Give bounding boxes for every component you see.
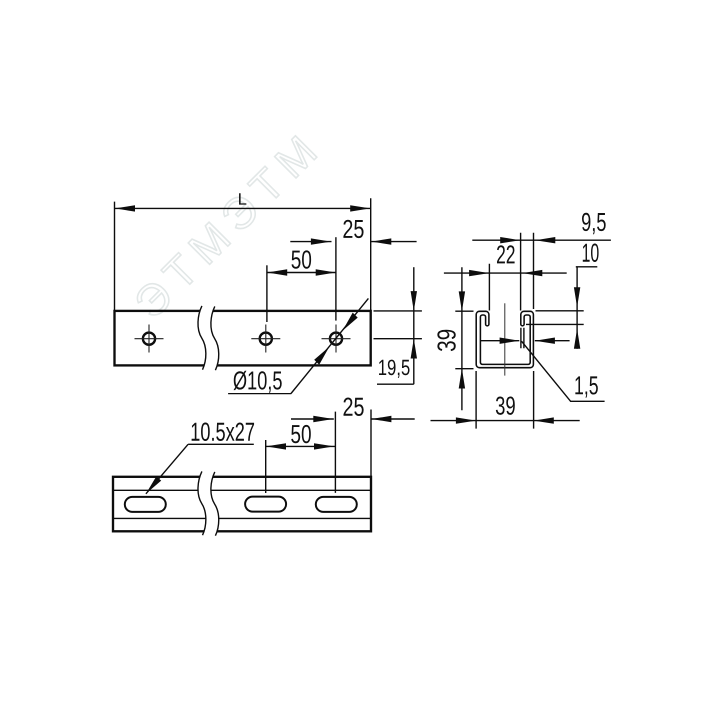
label 10.5x27 <box>192 423 254 441</box>
label 50 top <box>292 250 312 268</box>
dimension 19,5: horizontal extension lines from bar edge and hole axis <box>374 311 422 339</box>
dimension 50 bottom line <box>266 445 336 447</box>
dimension 39 bottom line <box>431 420 580 422</box>
dimension 25 bottom: extension lines <box>335 410 371 493</box>
bar2 break wave 2 <box>211 472 219 536</box>
bar2 break wave 1 <box>198 471 206 535</box>
dimension 19,5 arrows <box>411 291 417 358</box>
dimension 50 top: extension line above hole H2 <box>266 265 268 322</box>
hole H3 crosshair <box>322 325 351 353</box>
dimension 39 vertical line <box>461 267 463 410</box>
dimension 50 top arrows <box>267 269 336 275</box>
label 50 bottom <box>291 425 311 443</box>
hole H2 circle <box>260 333 272 345</box>
dimension 22 extension lines <box>489 233 533 311</box>
hole H2 crosshair <box>251 325 280 353</box>
channel vertical centerline <box>504 303 506 375</box>
hole diameter leader line <box>291 298 368 393</box>
hole diameter leader arrows <box>314 313 358 365</box>
hole H1 circle <box>143 333 155 345</box>
label 1,5 <box>575 376 597 397</box>
slot size label underline <box>188 443 254 445</box>
break band white <box>198 306 219 370</box>
dimension 50 bottom arrows <box>266 443 334 449</box>
break wave 2 <box>211 306 219 370</box>
dimension 39 vertical arrows <box>459 291 465 388</box>
slot S3 <box>316 497 357 512</box>
watermark ETM <box>133 135 317 319</box>
slot size leader line <box>146 444 188 494</box>
dimension 25 bottom arrows <box>313 416 391 422</box>
dimension 25 top: extension line above hole H3 <box>335 237 337 320</box>
dimension 1,5 leader and underline <box>522 341 605 401</box>
label 9,5 <box>582 213 606 234</box>
dimension 10 vertical line and label underline <box>576 267 598 349</box>
dimension 50 bottom: extension line above slot S2 <box>265 440 267 493</box>
dimension 9,5 line <box>472 239 611 241</box>
bar2 break band white <box>198 471 219 535</box>
slot S1 <box>125 497 166 512</box>
dimension 22 arrows <box>469 270 542 276</box>
bar2 inner edge lines <box>113 490 371 518</box>
dimension 39 vertical: extension lines <box>455 311 473 369</box>
slot S2 <box>245 497 286 512</box>
dimension L line <box>115 207 371 209</box>
bar outline <box>115 311 371 366</box>
label 19,5 <box>379 360 410 378</box>
dimension 10: extension lines from channel top and lip bottom <box>526 311 584 325</box>
dimension 1,5 arrows <box>500 338 555 344</box>
dimension 25 top arrows <box>311 238 391 244</box>
dimension L arrows <box>115 205 370 211</box>
label 39 bottom <box>496 396 515 414</box>
dimension 39 bottom: extension lines <box>476 371 533 429</box>
dimension 22 line <box>444 272 567 274</box>
label 22 <box>497 245 515 263</box>
dimension 9,5 arrows <box>500 237 555 243</box>
dimension 1,5 arrow lines <box>481 340 570 342</box>
hole H3 circle <box>330 333 342 345</box>
label 10 <box>583 244 599 262</box>
dimension 1,5 extension lines (lip faces) <box>521 328 524 348</box>
dimension 19,5 vertical line <box>413 267 415 384</box>
slot size leader arrow <box>146 476 161 493</box>
label diameter 10,5 <box>234 371 282 393</box>
label diameter underline <box>228 393 291 395</box>
hole H1 crosshair <box>135 325 164 353</box>
dimension 25 bottom line <box>291 418 415 420</box>
dimension L extension lines <box>115 198 371 311</box>
label 39 rotated <box>437 330 455 351</box>
dimension 39 bottom arrows <box>456 417 554 423</box>
dimension 19,5 label underline <box>377 383 414 385</box>
dimension 50 top line <box>267 272 336 274</box>
break wave 1 <box>198 306 206 370</box>
label 25 bottom <box>344 398 364 416</box>
bar2 outline <box>113 477 371 532</box>
dimension 25 top line <box>290 241 416 243</box>
channel profile outline <box>476 311 533 367</box>
label 25 top <box>343 220 363 238</box>
label L <box>239 193 246 204</box>
dimension 10 arrows <box>574 287 580 349</box>
